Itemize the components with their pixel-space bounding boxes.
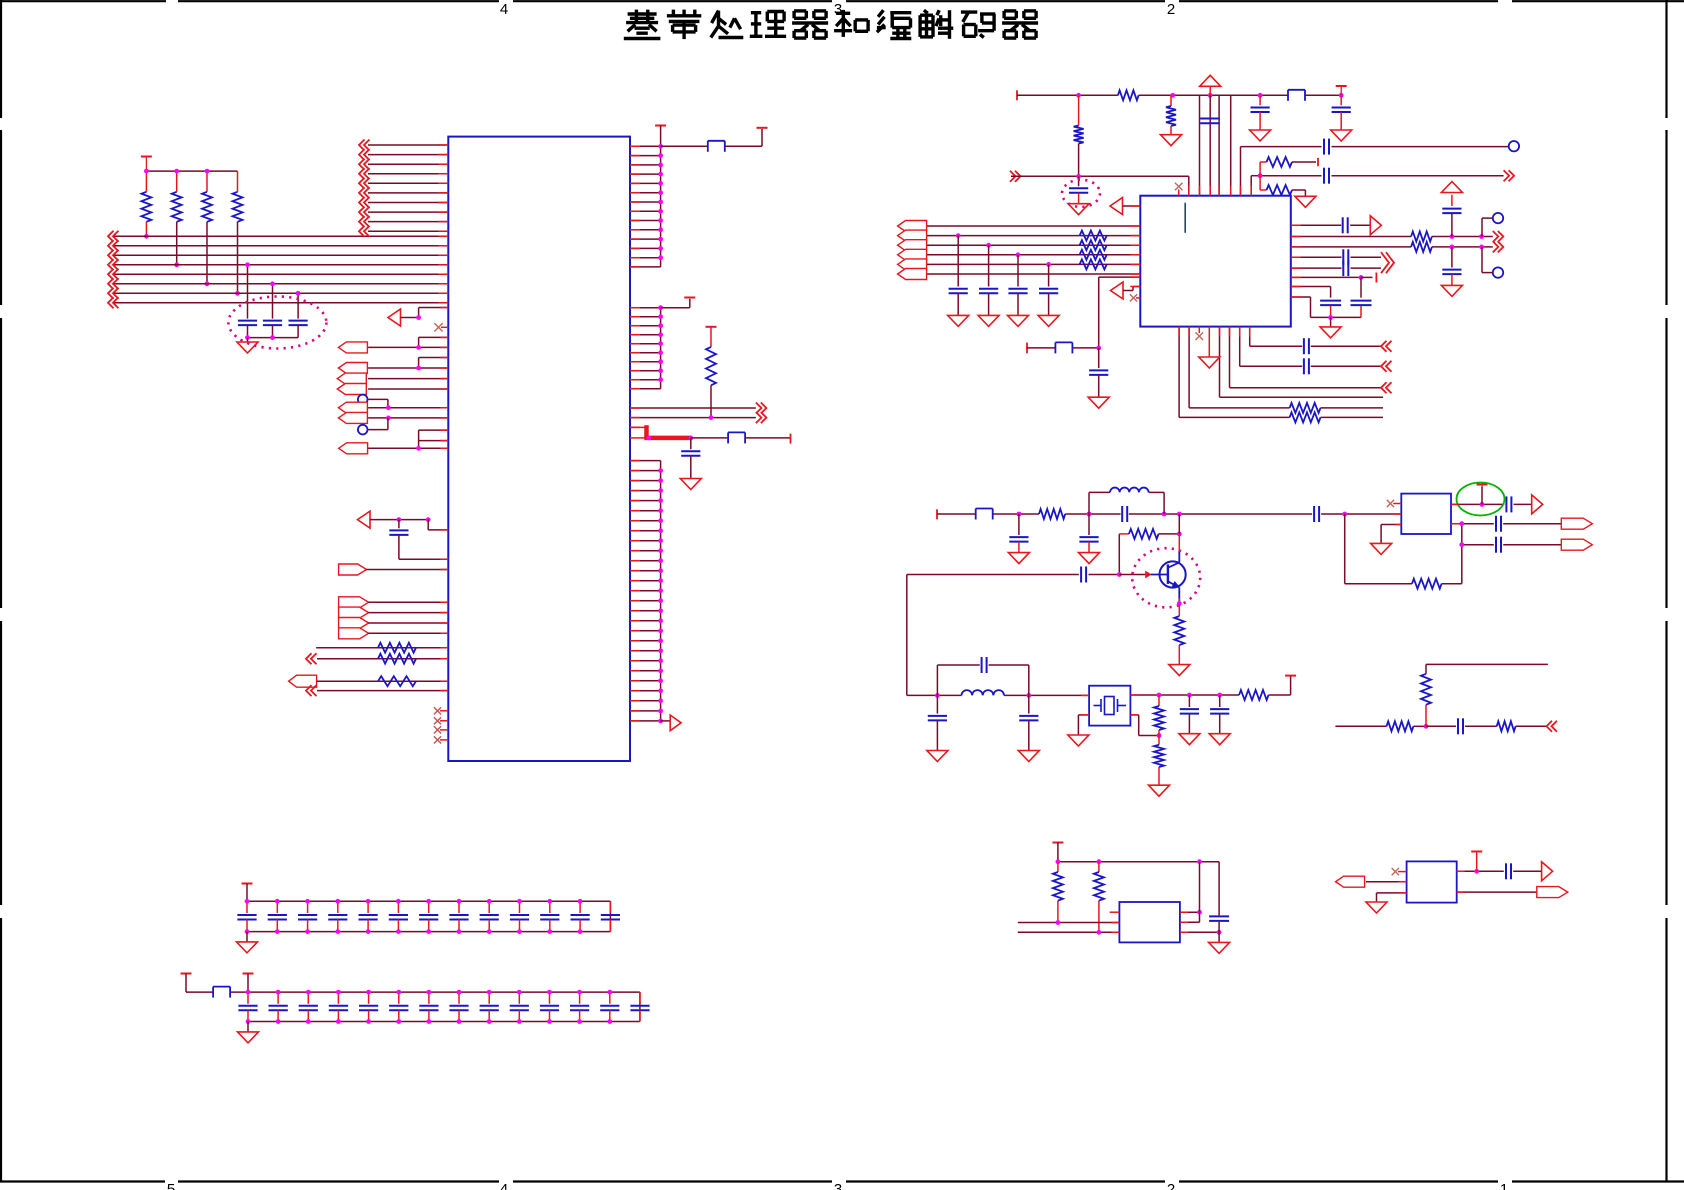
- resistor R24: [1412, 579, 1442, 589]
- ferrite bead FB1: [708, 141, 725, 152]
- resistor R7: [378, 676, 416, 686]
- ground GND6: [1068, 204, 1089, 215]
- resistor R21: [1239, 690, 1268, 700]
- wire cap bank1 rails: [247, 884, 610, 932]
- ground GND15: [1018, 751, 1039, 762]
- capacitor C23: [1079, 514, 1098, 553]
- connector tag U5 out2: [1537, 887, 1568, 898]
- connector arrow A9: [1542, 862, 1553, 881]
- capacitor C27 loop: [937, 657, 1028, 695]
- inductor L1: [1089, 488, 1164, 514]
- ferrite bead FB6: [213, 987, 230, 998]
- node dots on bar: [144, 169, 209, 174]
- IC U2 body: [1140, 196, 1291, 327]
- resistor R2: [172, 192, 182, 265]
- resistor R26: [1497, 721, 1516, 731]
- resistor R3: [202, 192, 212, 284]
- wire U5 in: [1366, 881, 1407, 883]
- wire U2r pin3: [1291, 245, 1493, 250]
- svg-text:1: 1: [1500, 1181, 1508, 1190]
- capacitor C17: [1442, 247, 1461, 286]
- connector tag P3: [337, 373, 366, 384]
- wire to VCC3: [725, 129, 762, 146]
- wire cap bank2 rails: [248, 974, 640, 1022]
- off-page chevron s3: [1381, 382, 1392, 393]
- svg-text:4: 4: [500, 1, 508, 18]
- capacitor C14: [1304, 358, 1309, 374]
- resistor R6: [378, 654, 416, 664]
- power symbol VCC7: [1336, 86, 1347, 95]
- connector arrow A1: [388, 309, 401, 326]
- capacitor C29: [1019, 695, 1038, 750]
- wire U2r pin6: [1291, 273, 1377, 283]
- off-page chevron s1: [1381, 341, 1392, 352]
- wire PF1 net: [368, 601, 448, 603]
- off-page chevron audio: [1547, 721, 1558, 732]
- wire U2r pin5: [1291, 267, 1381, 269]
- wire stair2: [1240, 327, 1381, 367]
- test point circle T1: [1509, 141, 1519, 151]
- wire audio top: [1426, 663, 1548, 665]
- capacitor C11: [1324, 168, 1329, 184]
- wire cap drop 2: [272, 284, 274, 319]
- wire U5 out2: [1457, 891, 1537, 893]
- wire stair3: [1230, 327, 1382, 388]
- ground pin U2 bottom: [1199, 327, 1220, 368]
- no-connect U5: [1392, 868, 1407, 875]
- connector tag PF2: [339, 607, 369, 618]
- connector arrow A3: [289, 675, 317, 687]
- wire reg top rail: [1056, 843, 1220, 865]
- capacitor C12: [1089, 348, 1108, 397]
- connector arrow A2: [358, 511, 371, 528]
- connector arrow A8: [1532, 495, 1543, 514]
- crystal Y1 body: [1089, 686, 1130, 726]
- power symbol VCC4: [684, 297, 695, 299]
- power symbol VCC13: [242, 883, 253, 885]
- wire U1 right pins group2: [630, 308, 661, 389]
- resistor R25: [1387, 721, 1414, 731]
- ground GND12: [1079, 553, 1100, 564]
- resistor R22: [1154, 695, 1164, 736]
- ground GND19: [1209, 734, 1230, 745]
- ground GND16: [1068, 735, 1089, 746]
- IC U3 body: [1401, 494, 1451, 534]
- connector tag P5: [338, 402, 367, 413]
- ground GND20: [1371, 543, 1392, 554]
- svg-text:3: 3: [834, 1181, 842, 1190]
- ground GND2: [680, 479, 701, 490]
- resistor R4: [233, 192, 243, 293]
- test point circle T3: [1482, 247, 1503, 278]
- wire thick net highlight: [630, 425, 693, 440]
- off-page chevron RN4: [306, 685, 317, 696]
- power symbol VCC2: [655, 125, 666, 127]
- junction dots group1: [658, 144, 663, 260]
- wire P4 net: [368, 388, 448, 390]
- ground GND4: [1250, 130, 1271, 141]
- ground GND5: [1331, 130, 1352, 141]
- inductor L2: [962, 690, 1004, 695]
- IC U4 body: [1119, 902, 1180, 942]
- resistor R11: [1166, 95, 1176, 134]
- resistor R1: [141, 192, 151, 237]
- IC U1 body: [448, 137, 630, 761]
- wire cap drop 1: [247, 265, 249, 319]
- capacitor C13: [1304, 338, 1309, 354]
- junction dots group3: [658, 468, 663, 723]
- node dots VDD net: [1076, 93, 1343, 98]
- wire junction bar: [146, 171, 237, 192]
- wire U4 out3: [1180, 862, 1222, 943]
- ground GND10: [1320, 317, 1341, 338]
- wire U3 feedback: [1345, 514, 1462, 584]
- node dot c2: [270, 281, 275, 286]
- resistor R27: [1421, 664, 1431, 726]
- ground GND14: [927, 751, 948, 762]
- connector arrow A5: [1110, 198, 1123, 215]
- wire U1 left pin stubs group A: [368, 145, 448, 231]
- off-page chevron o2: [1493, 231, 1504, 242]
- wire U5 gnd: [1377, 893, 1407, 902]
- capacitor C28: [928, 695, 947, 750]
- wire U2r pin8: [1291, 297, 1361, 320]
- highlight dotted ellipse Q1: [1132, 548, 1200, 607]
- svg-text:3: 3: [834, 1, 842, 18]
- wire U3 out C: [1459, 542, 1561, 547]
- transistor Q1: [1160, 561, 1186, 587]
- wire P6 net: [368, 416, 448, 421]
- wire arrow A1 net: [401, 308, 449, 320]
- wire stair1: [1250, 327, 1381, 347]
- resistor R28: [1053, 862, 1063, 923]
- capacitor C7: [1251, 95, 1270, 130]
- wire B2 net: [368, 418, 388, 430]
- ferrite bead FB4: [1055, 342, 1072, 353]
- no-connect top pin U2: [1175, 183, 1183, 196]
- resistor network RN5: [1080, 231, 1107, 270]
- power symbol VCC15: [181, 973, 192, 975]
- wire clk line: [1241, 147, 1509, 196]
- wire P3 net: [368, 378, 448, 380]
- wire P5 net: [368, 405, 448, 410]
- highlight green ellipse: [1457, 483, 1505, 516]
- wire VDD net top: [1017, 90, 1341, 100]
- wire U2 pin277: [1099, 277, 1141, 348]
- capacitor C24: [1122, 506, 1127, 522]
- ferrite bead FB3: [1288, 90, 1305, 101]
- capacitor C35: [1458, 718, 1463, 734]
- off-page chevron o45: [1381, 252, 1394, 273]
- inverted pin circle B1: [358, 395, 368, 405]
- junction dots bank1: [245, 899, 583, 934]
- ground GNDB1: [948, 315, 969, 326]
- wire P8 net: [366, 569, 448, 571]
- capacitor CB3: [1008, 252, 1027, 315]
- wire to arrow out: [661, 720, 671, 722]
- resistor R16: [1411, 232, 1432, 242]
- ground GND22: [1366, 902, 1387, 913]
- wire net175 node: [1251, 173, 1503, 195]
- power symbol VCC5: [706, 326, 717, 328]
- border zone numbers: [167, 1, 1508, 1190]
- wire A5 net: [1123, 205, 1141, 207]
- wire PF3 net: [368, 622, 448, 624]
- resistor R14: [1290, 403, 1321, 413]
- power symbol VCC11: [1052, 842, 1063, 844]
- ground GND13: [1169, 665, 1190, 676]
- connector tag P8: [339, 564, 367, 575]
- IC U2 inner mark: [1184, 203, 1186, 233]
- capacitor C20: [1320, 301, 1341, 318]
- connector tag PF3: [339, 618, 369, 629]
- ground GND7: [1295, 196, 1316, 207]
- no-connect pins U1 bottom-left: [434, 707, 448, 743]
- off-page chevrons bus left: [108, 231, 119, 308]
- capacitor C15: [1343, 217, 1348, 233]
- wire pin1 extension: [661, 145, 708, 147]
- wire data out lines: [630, 408, 756, 420]
- wire U3 out B: [1451, 521, 1561, 526]
- capacitor bank1: [237, 901, 620, 931]
- wire stair5: [1189, 327, 1383, 408]
- wire U2r pin4: [1291, 256, 1381, 258]
- capacitor C8: [1332, 95, 1351, 130]
- node dot c3: [296, 291, 301, 296]
- highlight dotted ellipse 1: [228, 297, 326, 349]
- capacitor CB4: [1039, 262, 1058, 315]
- ground GND23: [237, 932, 258, 953]
- junction dots bank2: [246, 990, 613, 1024]
- wire reg in2: [1018, 930, 1120, 935]
- power symbol VCC10: [1477, 485, 1488, 505]
- capacitor C18: [1343, 249, 1348, 265]
- capacitor C4: [389, 520, 448, 560]
- ground GND17: [1149, 785, 1170, 796]
- capacitor C19: [1343, 260, 1348, 276]
- capacitor C30: [1180, 695, 1199, 734]
- red pin tips: [438, 145, 1464, 932]
- capacitor CB1: [949, 233, 968, 315]
- ground GND8: [1088, 397, 1109, 408]
- wire RN2 line: [317, 658, 448, 660]
- wire RN3 line: [317, 680, 449, 682]
- wire U2 input bus: [926, 226, 1140, 274]
- resistor R13: [1260, 176, 1305, 197]
- capacitor C25: [1314, 506, 1319, 522]
- wire crystal left pin2: [1078, 715, 1089, 735]
- power arrow VCC8: [1441, 182, 1462, 193]
- wire U1 right pins group3: [630, 461, 661, 721]
- capacitor C16: [1442, 195, 1461, 237]
- wire rf line: [937, 509, 1401, 519]
- off-page chevron net175: [1504, 170, 1515, 181]
- wire group2 to VCC4: [661, 299, 690, 308]
- power symbol VCC9: [1285, 675, 1296, 677]
- ground GND24: [238, 1022, 259, 1043]
- resistor R5: [378, 643, 416, 653]
- wire U4 stub: [1110, 911, 1120, 913]
- power symbol VCC14: [243, 973, 254, 975]
- capacitor C1: [238, 321, 257, 338]
- connector tag PF1: [339, 597, 369, 608]
- resistor R9: [1118, 90, 1139, 100]
- connector tag P1: [338, 342, 367, 353]
- wire U3 out A: [1451, 502, 1532, 507]
- off-page chevron o3: [1493, 241, 1504, 252]
- ground GND3: [1161, 135, 1182, 146]
- wire U2r pin2: [1291, 234, 1493, 239]
- wire U2 top rails: [1200, 95, 1231, 195]
- power symbol VCC12: [1471, 852, 1482, 872]
- capacitor C37: [1506, 863, 1511, 879]
- resistor R12: [1260, 157, 1318, 176]
- resistor R18: [1039, 509, 1065, 519]
- wire stair4: [1220, 327, 1384, 398]
- wire U-link pins: [419, 430, 449, 441]
- capacitor C26 base: [907, 567, 1122, 583]
- connector tag P4: [337, 384, 366, 395]
- wire osc loop: [907, 575, 1089, 698]
- wire emitter: [1177, 588, 1182, 617]
- capacitor C36: [1209, 916, 1229, 921]
- off-page chevrons data out: [756, 403, 767, 424]
- junction dots resistor bottoms: [144, 234, 240, 296]
- ground GND1: [237, 338, 258, 353]
- ground GND21: [1209, 942, 1230, 953]
- wire cap drop 3: [297, 293, 299, 318]
- capacitor bank2: [238, 992, 649, 1021]
- capacitor C21: [1351, 301, 1372, 318]
- wire U3 gnd pin: [1381, 525, 1401, 544]
- connector tag P2: [338, 363, 367, 374]
- connector arrow A6: [1111, 282, 1124, 299]
- ferrite bead FB2: [728, 432, 745, 443]
- svg-text:2: 2: [1167, 1181, 1175, 1190]
- wire audio line: [1335, 724, 1546, 729]
- wire U2r pin1: [1291, 224, 1371, 226]
- wire P2 net: [368, 358, 448, 371]
- wire osc in line: [1027, 343, 1101, 354]
- power symbol VCC3: [757, 127, 768, 129]
- wire cap join: [1360, 277, 1362, 297]
- resistor R8: [706, 327, 716, 418]
- wire termination end: [745, 434, 791, 444]
- ground GNDB3: [1008, 315, 1029, 326]
- test point circle T2: [1482, 213, 1503, 237]
- connector tag U5 in: [1336, 876, 1365, 887]
- wire to termination: [691, 437, 729, 439]
- resistor R15: [1290, 412, 1321, 422]
- resistor R20: [1174, 616, 1184, 665]
- wire U5 out1: [1457, 869, 1542, 874]
- wire collector: [1178, 514, 1180, 562]
- wire cap ground rail: [245, 335, 298, 340]
- inverted pin circle B2: [358, 425, 368, 435]
- power arrow VCC6: [1200, 75, 1221, 95]
- wire P1 net: [368, 337, 448, 349]
- connector arrow A7: [1370, 216, 1381, 235]
- wire PF2 net: [368, 612, 448, 614]
- node dots rf line: [1017, 512, 1348, 517]
- wire U2r pin7: [1291, 287, 1331, 298]
- capacitor C5: [681, 438, 700, 479]
- capacitor C22: [1009, 514, 1028, 553]
- wire RN1 line: [316, 647, 448, 649]
- capacitor C34: [1496, 537, 1501, 553]
- connector tags U2 inputs: [898, 221, 927, 280]
- capacitor C6: [1200, 119, 1220, 124]
- wire A6 net: [1123, 287, 1140, 291]
- resistor R19 feedback: [1119, 529, 1181, 575]
- IC U5 body: [1407, 861, 1457, 902]
- resistor R10: [1074, 95, 1084, 176]
- no-connect U3: [1387, 500, 1402, 507]
- connector tag P7: [339, 443, 368, 454]
- no-connect pin U2 left: [1130, 294, 1140, 301]
- off-page chevrons group A: [359, 140, 370, 237]
- capacitor C32: [1506, 496, 1511, 512]
- svg-text:4: 4: [500, 1181, 508, 1190]
- ground GND11: [1008, 553, 1029, 564]
- wire bank2 fb link: [186, 974, 248, 993]
- ground GNDB2: [978, 315, 999, 326]
- capacitor C3: [289, 321, 308, 338]
- connector tag out C: [1561, 539, 1592, 550]
- resistor R29: [1094, 862, 1104, 933]
- junction dots group2: [658, 305, 663, 382]
- wire U4 out1: [1180, 862, 1202, 923]
- no-connect pin x1: [434, 323, 448, 331]
- svg-text:2: 2: [1167, 1, 1175, 18]
- connector arrow out A4: [670, 715, 681, 731]
- wire U1 right pins group1: [630, 126, 661, 267]
- crystal Y1 symbol: [1094, 697, 1127, 715]
- wire base lead: [1119, 572, 1168, 578]
- capacitor C33: [1496, 516, 1501, 532]
- wire stair6: [1179, 327, 1383, 418]
- resistor R23: [1154, 736, 1164, 786]
- capacitor C10: [1069, 176, 1088, 203]
- wire net176: [1011, 174, 1189, 196]
- wire reg in1: [1018, 920, 1120, 925]
- wire PF4 net: [368, 632, 448, 634]
- capacitor C31: [1210, 695, 1229, 734]
- wire P7 net: [368, 441, 448, 451]
- capacitor C2: [263, 321, 282, 338]
- wire address bus lines: [113, 236, 448, 302]
- capacitor CB2: [979, 243, 998, 316]
- resistor R17: [1411, 242, 1432, 252]
- wire B1 net: [368, 399, 388, 407]
- connector tag P6: [338, 412, 367, 423]
- ferrite bead FB5: [976, 509, 993, 520]
- off-page chevron RN2: [306, 653, 317, 664]
- wire RN4 line: [317, 690, 448, 692]
- capacitor C9: [1324, 139, 1329, 155]
- wire crystal out: [1130, 677, 1290, 698]
- connector tag out B: [1561, 518, 1592, 529]
- node dot c1: [245, 262, 250, 267]
- off-page chevron s2: [1381, 361, 1392, 372]
- off-page chevron net176: [1010, 171, 1021, 182]
- svg-text:5: 5: [167, 1181, 175, 1190]
- power symbol VCC1: [141, 157, 152, 172]
- ground GND9: [1441, 285, 1462, 296]
- connector tag PF4: [339, 628, 369, 639]
- wire crystal pin3 loop: [1130, 715, 1161, 738]
- no-connect U2 bottom: [1196, 327, 1204, 340]
